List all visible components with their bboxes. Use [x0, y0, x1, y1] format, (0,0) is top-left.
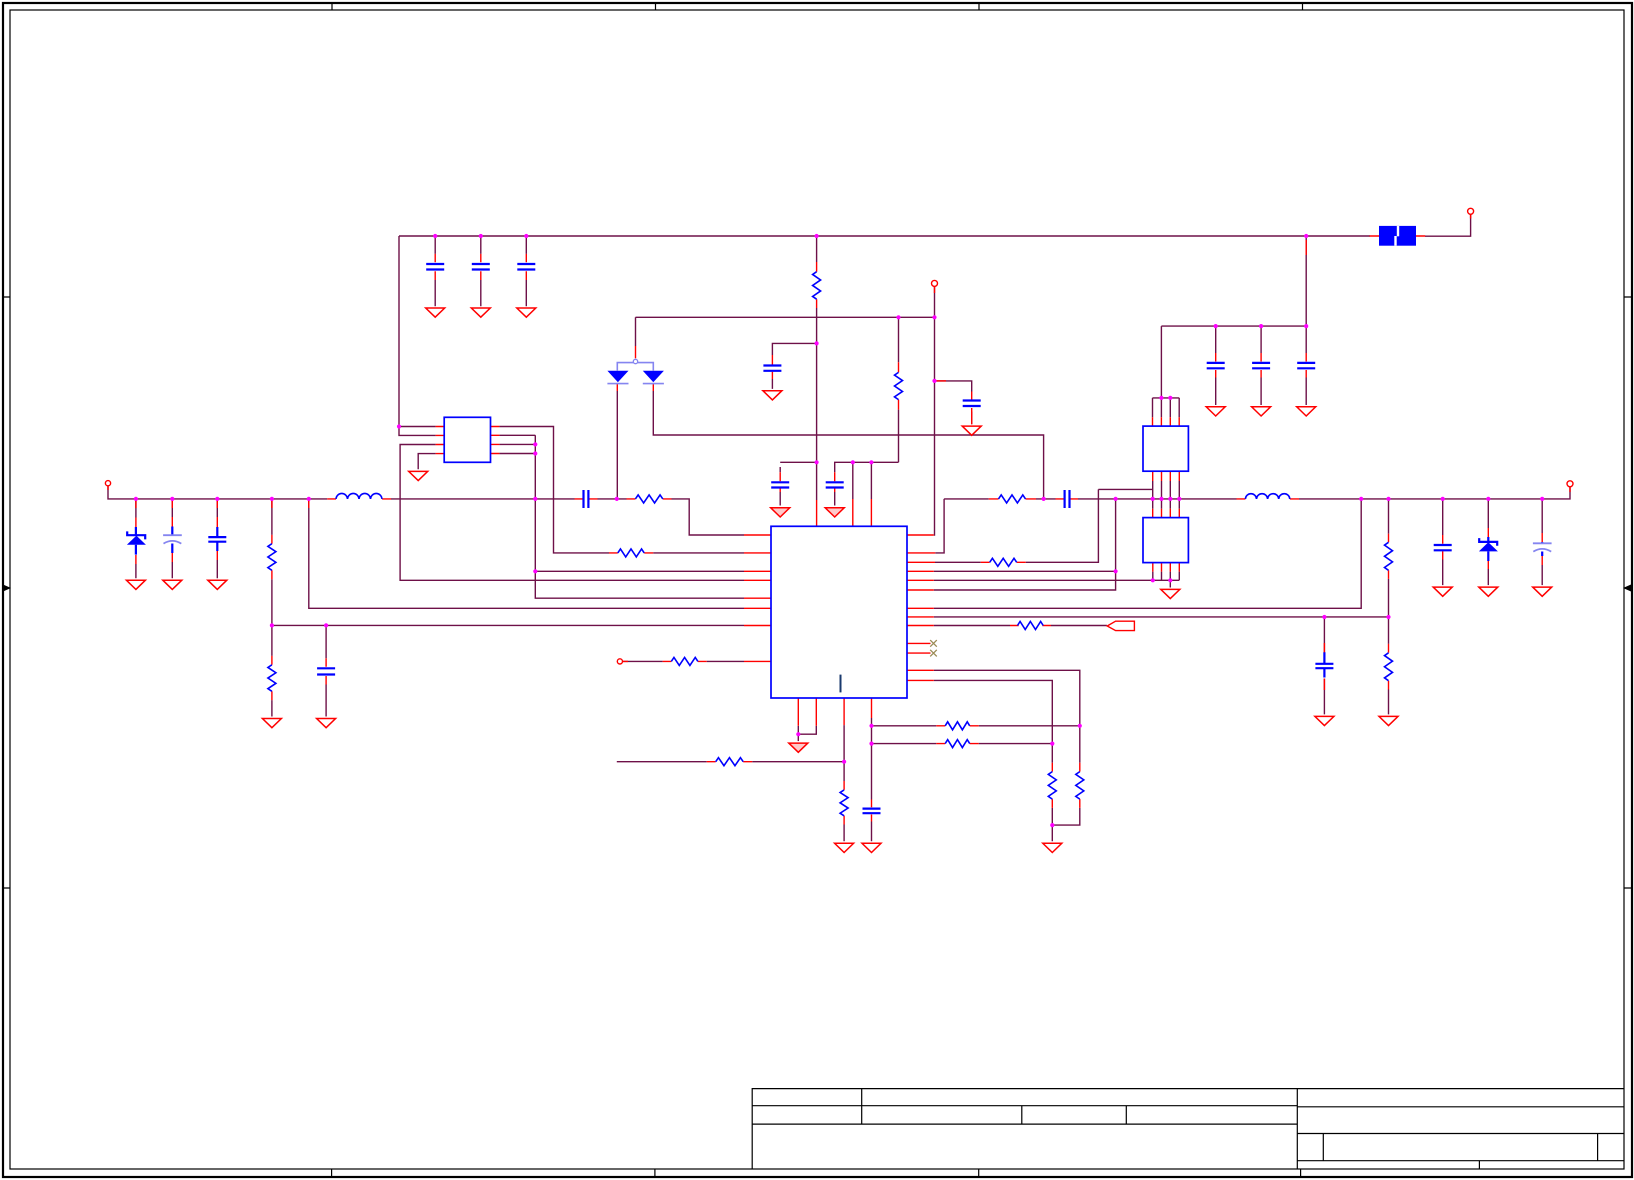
wire x=1388.5 column rail to resistors to ground [1388, 499, 1390, 715]
IC U1 box [444, 417, 490, 462]
resistor R3 x=898.5 vertical [895, 372, 903, 399]
junction dots wire 625.4 [270, 623, 274, 627]
capacitor plates x=772.4 [763, 366, 781, 371]
wire diode node riser and y=317.3 [636, 317, 935, 346]
wire cap column x=326.1 [325, 625, 327, 716]
ground under cap x=834.7 pink [825, 508, 844, 517]
ground under rail326 cap1 [1206, 407, 1225, 416]
wire fuse right to port corner [1425, 214, 1471, 236]
ground under resistor x=271.9 [262, 719, 281, 728]
wire IC pin y=661.4 port P5 and resistor R7 [623, 660, 744, 662]
wire x=1324.4 column from y=617 to cap to ground [1323, 617, 1325, 714]
no-connect X pin1 [930, 640, 937, 647]
junction dots wire 571.3 [533, 569, 537, 573]
resistor R8 y=562.3 [990, 558, 1017, 566]
diode pair Y link light blue [617, 363, 653, 371]
wire U3 top pins from rail [1153, 499, 1180, 509]
polar cap PC2 stub [1541, 542, 1543, 556]
wire U3 bottom pins into bus y=580.3 [1162, 572, 1180, 588]
port P3 circle [1468, 208, 1474, 214]
resistor R15 x=1388.5 vertical lower [1385, 653, 1393, 681]
wire caps on rail 326.1 columns [1216, 326, 1307, 405]
ground symbols [126, 308, 1551, 853]
diode D1 triangle [607, 371, 628, 382]
port P5 circle [617, 659, 622, 664]
junction dots bus 397.9 [1159, 396, 1163, 400]
wire left diode down to rail [616, 391, 618, 499]
wire U2 top bus y=397.9 and pin drops [1153, 398, 1180, 417]
wire IC pin y=616.9 right run [934, 616, 1389, 618]
red stubs caps under wire 462.3 [780, 472, 835, 492]
red stubs left rail components [136, 500, 309, 564]
wire x=1079.8 column resistor to corner 825.1 [1052, 726, 1080, 825]
ground under C1 [426, 308, 445, 317]
capacitor plates x=1261.1 [1252, 363, 1270, 368]
capacitor C2 plates [472, 264, 490, 270]
capacitor plates x=871.5 bottom [863, 809, 881, 814]
red stubs x=1388.5 resistors [1388, 534, 1390, 690]
wire right main rail y=498.9 [944, 487, 1570, 499]
resistor R17 x=1052.3 vertical [1048, 772, 1056, 800]
red stub diode node riser [635, 346, 637, 358]
red stubs rail resistor R9 x=989.7-1016.7 on y=498.9 [989, 498, 1036, 500]
wire U2 bottom pins to rail [1153, 481, 1180, 499]
title block right cell dividers [1323, 1134, 1597, 1170]
red stubs resistor R8 y=562.3 [981, 561, 1026, 563]
red stubs below diodes D1 D2 [617, 384, 653, 391]
resistor R5 y=498.9 [635, 495, 662, 503]
junction dots right rail [1042, 497, 1046, 501]
wire IC pin y=580.3 right to U3 bus [934, 572, 1179, 581]
wire right diode down to y=435 long run [653, 391, 1043, 499]
junction dots wire 617 [1322, 615, 1326, 619]
capacitor plates x=326.1 [317, 668, 335, 674]
red stubs cap x=772.4 [771, 355, 773, 379]
inductor L1 [336, 493, 382, 498]
ground under C2 [471, 308, 490, 317]
red stubs top caps C1 C2 C3 [435, 254, 526, 280]
red stubs U1 pins [436, 427, 500, 454]
wire IC pin y=562.3 with resistor R8 to x=1098.4 up to 489.4 [935, 489, 1098, 562]
wire y=489.4 link from x=1098.4 to U2 pin1 [1098, 488, 1152, 490]
series capacitor C5 plates [584, 490, 589, 508]
border center arrow left [3, 585, 11, 592]
red stub port P2 [934, 286, 936, 293]
wire vertical x=1115.6 rail to y=590 [934, 499, 1116, 590]
resistor R6 y=552.9 [618, 549, 644, 557]
red stubs U3 pins [1153, 509, 1180, 572]
junction dots wire 462.3 [815, 460, 819, 464]
resistor R4 x=271.9 vertical [268, 544, 276, 571]
junction dots bus 580.3 [1151, 578, 1155, 582]
wire y=761.7 long left run [617, 761, 844, 763]
IC U4 central box [771, 526, 907, 698]
wire y=743.6 run with resistor R11 [872, 743, 1053, 745]
border zone ticks left [3, 297, 10, 888]
wire column x=308.8 rail down to IC pin y=608.3 [309, 499, 744, 608]
junction dots wire 317.3 [896, 315, 900, 319]
TITLE BLOCK [752, 1089, 1624, 1169]
wire y=625.4 long run to IC [272, 624, 744, 626]
red stubs caps rail 326.1 [1216, 353, 1307, 378]
series capacitor C6 plates right [1065, 490, 1070, 508]
ground under cap x=326.1 [317, 719, 336, 728]
junction dots rail 326.1 [1214, 324, 1218, 328]
red stubs U2 pins [1153, 417, 1180, 481]
red stubs inductor L2 [1237, 498, 1300, 500]
junction dot 934.5,380.9 [932, 379, 936, 383]
junction dots vertical A [533, 442, 537, 446]
red stubs right shunt group [1443, 528, 1543, 569]
ground x=1324.4 [1315, 716, 1334, 725]
diode pair node circle [633, 359, 637, 363]
title block outline left section [752, 1089, 1624, 1169]
red stubs central IC top pins [817, 499, 872, 526]
resistor R9 y=498.9 [999, 495, 1026, 503]
red stubs divider R4 x=271.9 and lower R x=271.9 [271, 535, 273, 700]
wire zener Z1 column x=135.9 [135, 499, 137, 578]
resistor R18 x=844.1 vertical [840, 790, 848, 816]
red stubs cap x=326.1 [325, 658, 327, 684]
title block left cell dividers [862, 1089, 1127, 1125]
capacitor C1 plates [426, 264, 444, 270]
ground right zener x=1488.3 [1479, 587, 1498, 596]
wire y=462.3 segment A with cap x=780.2 [780, 462, 816, 472]
red stubs bottom resistors caps [707, 726, 1080, 825]
ground under C3 [517, 308, 536, 317]
ground under rail326 cap2 [1252, 407, 1271, 416]
wire IC pin2L resistor R6 region [653, 552, 744, 554]
wire x=1052.3 column resistor to ground [1051, 744, 1053, 842]
red stubs port P5 resistor R7 [623, 660, 707, 662]
wire IC top pins x=852.8,871.4 from y=462.3 [853, 462, 872, 499]
wire vertical x=1306.2 top rail down to rail 326.1 [1305, 236, 1307, 326]
red stubs inductor L1 [327, 498, 391, 500]
junction dots left rail [134, 497, 138, 501]
zener Z2 triangle [1479, 542, 1498, 551]
wire IC pin y=571.3 right to x=1115.6 [934, 570, 1116, 572]
red stubs fuse F1 [1370, 214, 1471, 236]
wire IC bottom pin x=844.1 through resistor to ground [843, 725, 845, 841]
resistor R13 y=761.7 [716, 758, 744, 766]
capacitor plates x=971.7 [963, 401, 981, 407]
red stubs cap x=971.7 [971, 392, 973, 425]
capacitor plates x=834.7 under wire462 [826, 482, 844, 487]
wire branch to cap at x=772.4 [772, 343, 816, 389]
wire caps zener right group columns [1443, 499, 1543, 585]
resistor R2 x=816.6 vertical [813, 272, 821, 300]
wire y=571.3 from vertical A to IC [535, 570, 744, 572]
ground under cap x=971.7 [962, 426, 981, 435]
border center arrow right [1623, 585, 1631, 592]
capacitor C4 plates and stubs [208, 527, 226, 551]
red stubs resistor R2 x=816.6 [816, 262, 818, 308]
wire U1 pin2R,3R,4R into vertical A x=535.3 [499, 435, 535, 453]
port P4 circle [1567, 481, 1573, 487]
wire left main rail y=498.9 [108, 486, 744, 535]
inductor L2 [1245, 494, 1289, 499]
border zone ticks bottom [332, 1169, 1301, 1176]
resistor R12 y=625.5 [1018, 622, 1044, 630]
polar cap PC2 plate and arc [1533, 543, 1552, 551]
capacitor plates x=1324.4 with stubs [1315, 652, 1333, 677]
zener Z1 triangle [127, 536, 146, 545]
red stubs series cap C5 [575, 498, 598, 500]
red stubs central IC left pins [744, 535, 771, 661]
title block divider main [1296, 1089, 1298, 1169]
wire IC pin y=680.4 right down to dot 743.6 [934, 680, 1053, 743]
wire IC bottom pin x=798.3 [797, 726, 799, 741]
IC U2 box [1143, 426, 1188, 471]
ground under cap C4 [208, 580, 227, 589]
wire IC pin y=608.3 right to x=1361.2 up to rail [934, 499, 1361, 608]
resistor R16 x=1079.8 vertical [1076, 772, 1084, 800]
junction dot 816.6,343.4 [815, 341, 819, 345]
red stub port P1 [107, 486, 109, 490]
wire y=725.8 run with resistor R10 [872, 725, 1080, 727]
resistor R4b x=271.9 vertical lower [268, 665, 276, 692]
red stub branch y=380.9 [937, 380, 947, 382]
ground under resistor x=844.1 [835, 843, 854, 852]
ground under zener Z1 [126, 580, 145, 589]
ground under cap x=772.4 [763, 391, 782, 400]
capacitor plates x=780.2 under wire462 [771, 482, 789, 487]
port P2 circle [932, 280, 938, 286]
zener Z2 stubs and bar [1479, 537, 1497, 561]
IC U3 box [1143, 518, 1188, 563]
wire y=462.3 segment B with cap x=834.7 [835, 462, 899, 505]
polar cap PC1 plate and arc [163, 535, 182, 543]
junction dot U1 pin1 [397, 424, 401, 428]
ground under rail326 cap3 [1297, 407, 1316, 416]
wire vertical x=816.6 rail to resistor R2 to dot 343.4 to wire 462.3 [816, 236, 818, 500]
wire IC bottom pin x=816.3 corner to dot [798, 726, 816, 734]
wire U1 pin4 to ground [418, 454, 435, 470]
ground under cap x=871.5 [862, 843, 881, 852]
title block left rows [752, 1106, 1297, 1124]
wire cap C4 column x=217.3 [216, 499, 218, 578]
wire U1 pin1R to vertical x=553.5 down to y=552.9 [499, 427, 609, 553]
red stub x=1306.2 below top rail [1305, 240, 1307, 255]
junction dots top rail [433, 234, 437, 238]
resistor R10 y=725.8 [945, 722, 970, 730]
diode D1 cathode bar [607, 383, 628, 385]
fuse F1 body [1379, 226, 1416, 246]
wire divider column x=271.9 rail to y=625.4 [271, 499, 273, 717]
junction dots bottom area [796, 732, 800, 736]
red stubs x=1324.4 cap [1323, 643, 1325, 690]
ground under cap x=780.2 pink [771, 508, 790, 517]
red stub port P4 [1569, 487, 1571, 492]
red stubs central IC right pins [907, 535, 935, 680]
capacitor plates x=1215.7 [1207, 363, 1225, 368]
wire cap C1 column x=435.2 [434, 236, 436, 306]
resistor R11 y=743.6 [945, 740, 970, 748]
wire cap C2 column x=480.8 [480, 236, 482, 306]
red stubs resistor R12 y=625.5 [1010, 625, 1051, 627]
wire cap x=780.2 lower [779, 492, 781, 506]
ground x=1388.5 [1379, 716, 1398, 725]
wire U1 pin3 route to IC pin y=580.3 [400, 445, 744, 581]
red stubs series cap C6 [1056, 498, 1079, 500]
ground U1 pin4 [409, 471, 428, 480]
red stubs resistor R6 y=552.9 [609, 552, 653, 554]
IC U4 inner mark [840, 675, 842, 693]
wire branch x=934.5 to cap x=971.7 [935, 381, 972, 424]
wire rail 326.1 right power [1161, 326, 1306, 398]
wire IC bottom pin x=871.5 down through cap to ground [871, 718, 873, 841]
ground right polar cap x=1542.2 [1533, 587, 1552, 596]
border zone ticks right [1624, 297, 1632, 888]
border zone ticks top [332, 3, 1303, 10]
red stubs resistor R3 x=898.5 [898, 362, 900, 409]
wire resistor column x=898.5 from y=317.3 to wire 462.3 [898, 317, 900, 462]
ground x=1052.3 [1043, 843, 1062, 852]
wire IC pin2R up x=944.1 [935, 499, 944, 553]
resistor R14 x=1388.5 vertical [1385, 542, 1393, 570]
red stubs resistor R5 [627, 498, 672, 500]
wire vertical x=399 top rail to U1 pin1/pin2 [399, 236, 436, 435]
net tag pointer x=1107 [1107, 621, 1134, 630]
wire polar cap PC1 column x=172.3 [171, 499, 173, 578]
capacitor plates x=1306.2 [1297, 363, 1315, 368]
polar cap PC1 stub [171, 527, 173, 554]
title block right rows [1297, 1107, 1624, 1161]
wire port P2 column x=934.5 down to IC pin1R y=535 [933, 286, 936, 535]
red stubs central IC bottom pins [798, 698, 871, 726]
wire vertical A x=535.3 down to IC pin y=598.2 [535, 435, 744, 598]
diode D2 cathode bar [643, 383, 664, 385]
ground right cap x=1442.7 [1433, 587, 1452, 596]
wire IC pin y=670.3 right down to dot 725.8 [934, 670, 1080, 726]
zener Z1 stubs and bar [127, 527, 145, 555]
no-connect X pin2 [930, 650, 937, 657]
wire cap C3 column x=526.3 [525, 236, 527, 306]
capacitor C3 plates [517, 264, 535, 270]
ground under U3 bus [1161, 589, 1180, 598]
wire IC pin y=625.5 right to tag [934, 625, 1107, 627]
ground IC bottom left pink [789, 743, 808, 752]
capacitor plates x=1442.7 [1434, 545, 1452, 550]
wire top power rail y=236 [399, 235, 1370, 237]
ground under polar cap PC1 [163, 580, 182, 589]
diode D2 triangle [643, 371, 664, 382]
resistor R7 y=661.4 [671, 657, 698, 665]
port P1 circle [105, 481, 110, 486]
